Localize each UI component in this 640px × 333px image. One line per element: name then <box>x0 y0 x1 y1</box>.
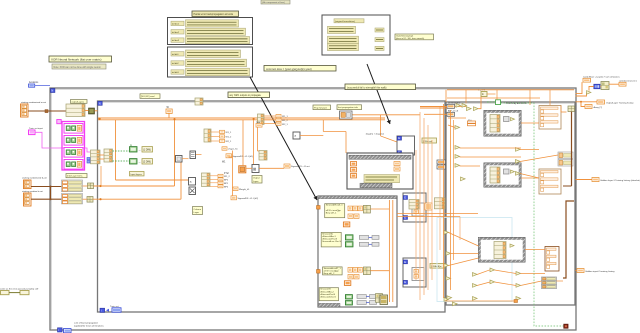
wire unbundle to S2 <box>85 110 98 112</box>
label common loss <box>264 66 336 72</box>
svg-text:(2 DIM): (2 DIM) <box>143 161 151 164</box>
wire w-set brown <box>28 110 66 113</box>
svg-text:all W.r inout[]ge: all W.r inout[]ge <box>324 269 340 272</box>
S4 green row 1 <box>345 235 379 240</box>
wire S2-S3 double <box>420 107 447 115</box>
svg-text:same as the error passed-out: same as the error passed-out (abs) self <box>0 288 39 291</box>
S4 orange row 1b <box>348 214 359 218</box>
unbundle outputLayers <box>66 104 85 117</box>
unbundle U1 <box>91 150 101 164</box>
unbundle U5 and minis <box>258 114 289 126</box>
svg-text:Partial error backpropagation: Partial error backpropagation all units <box>194 13 234 16</box>
wire N2 out <box>243 120 284 169</box>
unbundle U5b <box>259 151 267 161</box>
svg-text:outputLayers: outputLayers <box>72 100 86 103</box>
svg-text:any %d% outputs to propagate: any %d% outputs to propagate <box>230 94 262 97</box>
wire b-set brown 2 <box>31 198 62 200</box>
starting randomized b-set control <box>22 177 47 189</box>
case struct B <box>403 193 426 222</box>
svg-text:Weight_h1: Weight_h1 <box>239 188 250 191</box>
formula box 1 (dc/dw group) <box>168 18 253 45</box>
svg-text:W1_1: W1_1 <box>282 116 288 118</box>
S4 edge tunnels <box>317 206 321 274</box>
svg-text:E: E <box>404 215 406 219</box>
AxB node N1 <box>189 178 196 186</box>
a-b box pair <box>455 119 476 129</box>
svg-text:Output: Output <box>253 177 260 180</box>
svg-text:Find Array Elements: Find Array Elements <box>506 102 528 105</box>
for-loop S1 (iterations) border <box>50 88 576 330</box>
for-loop S2 (train set) border <box>98 101 446 312</box>
cond text top <box>583 75 621 78</box>
svg-text:(successful fail to strengthif: (successful fail to strengthif this walk… <box>347 86 387 89</box>
wire array ind <box>581 102 585 107</box>
sum avoids label <box>345 84 416 90</box>
tunnel cluster right top <box>434 198 445 209</box>
stack boxes bottom <box>542 277 557 289</box>
cluster group W dims <box>62 180 83 192</box>
svg-text:all W.r inout[]ge: all W.r inout[]ge <box>326 209 342 212</box>
S2 loop i terminal <box>100 308 109 312</box>
pink frame corner icon <box>57 120 61 124</box>
initial read label <box>140 94 160 99</box>
annotation arrow B <box>367 64 391 124</box>
train set indicator <box>110 305 121 312</box>
wire H1-C1 <box>521 122 539 124</box>
svg-text:XOR Neural Network (flat over: XOR Neural Network (flat over matrix) <box>51 58 102 62</box>
U3 output minis <box>210 174 230 188</box>
transpose icon <box>189 187 196 195</box>
cluster box C3 <box>545 247 559 272</box>
cluster box C2 <box>539 169 561 194</box>
sigmoid h1 row <box>226 154 253 158</box>
wire g1 east <box>83 118 176 187</box>
svg-text:W2_1: W2_1 <box>226 141 232 143</box>
array indicator <box>585 105 602 110</box>
svg-text:fast propagation info: fast propagation info <box>338 106 359 109</box>
sum of backprop label <box>74 321 105 327</box>
svg-text:dc/dw1: dc/dw1 <box>172 23 180 25</box>
wire icons <box>576 84 620 96</box>
svg-text:Column: Column <box>194 209 202 211</box>
svg-text:sum of back propagation: sum of back propagation <box>74 321 99 324</box>
starting random b-set control <box>22 190 43 206</box>
svg-text:(1 DIM): (1 DIM) <box>143 149 151 152</box>
svg-text:common loss = (yout-y)e(yout)(: common loss = (yout-y)e(yout)(1-yout) <box>266 67 312 71</box>
svg-text:W2_1: W2_1 <box>282 124 288 126</box>
svg-text:E: E <box>404 260 406 264</box>
wires S4 to H3 <box>397 214 478 241</box>
svg-text:→: → <box>138 148 141 152</box>
wire vertical x115 <box>116 120 191 180</box>
build icon g1 <box>88 183 94 189</box>
unbundle U4 and minis <box>204 129 232 143</box>
find array node <box>496 100 528 105</box>
wire mid verticals <box>229 151 234 197</box>
input layers label <box>130 172 145 176</box>
svg-text:InterLayer Dims: InterLayer Dims <box>67 175 83 178</box>
svg-text:SigmoidXX—f1 out: SigmoidXX—f1 out <box>291 165 310 168</box>
wire green dashed 2 <box>113 160 130 162</box>
svg-text:Gain/timestep/opt: Gain/timestep/opt <box>396 35 414 38</box>
svg-text:E: E <box>404 195 406 199</box>
svg-text:→: → <box>138 160 141 164</box>
wire U5 links <box>258 116 277 151</box>
wire train-set pink <box>35 132 91 152</box>
khaki triangle nodes <box>444 104 521 306</box>
matrix node M1 <box>176 156 189 163</box>
P h2 text <box>224 173 229 175</box>
diag text <box>366 133 385 136</box>
unbundle U6 top <box>195 98 203 105</box>
svg-text:[W1,W2] read: [W1,W2] read <box>141 95 155 98</box>
S4 build icon bottom <box>376 294 383 303</box>
svg-text:[1D/A×B]w: [1D/A×B]w <box>431 265 442 268</box>
sigmoid h2 row <box>231 196 258 200</box>
svg-text:OutputLayer Training history: OutputLayer Training history <box>606 101 634 104</box>
svg-text:controls (structure r): controls (structure r) <box>619 79 637 82</box>
tunnel on S4 bottom wire <box>445 300 518 303</box>
shape_h1 row <box>222 147 238 151</box>
svg-text:⊞: ⊞ <box>253 166 257 171</box>
brown wire right edge <box>563 112 572 186</box>
build icon right of unbundle <box>89 108 95 114</box>
S4 tunnel a <box>343 222 349 227</box>
wire main double horizontal <box>98 118 385 120</box>
wire tri to node <box>478 94 495 109</box>
for-loop S2 count terminal <box>98 101 102 105</box>
W1 text <box>222 161 226 163</box>
svg-text:SinusoidLen.Chn.S: SinusoidLen.Chn.S <box>322 241 341 243</box>
svg-text:Hidden layer-1 Training histor: Hidden layer-1 Training history (absolut… <box>601 179 640 182</box>
cyan struct outline <box>437 218 512 302</box>
S2 mid column tan boxes <box>409 200 432 211</box>
step1 label <box>228 92 270 98</box>
InterLayer Dims label <box>66 174 87 178</box>
label gain timestep <box>395 34 434 40</box>
for-loop S1 N terminal <box>51 89 55 93</box>
svg-text:Layer: Layer <box>253 180 259 183</box>
svg-text:starting random b-set: starting random b-set <box>22 190 43 193</box>
formula box 3 (original formulation) <box>322 15 390 55</box>
tunnel boxes on S2 edge <box>437 160 446 169</box>
wire vertical x323 <box>323 120 346 153</box>
iterations control <box>29 81 51 87</box>
blue minis left of U1 <box>87 158 90 164</box>
wire b-set brown 1 <box>31 186 62 188</box>
svg-text:starting randomized w-set: starting randomized w-set <box>21 101 46 104</box>
S4 orange rows 1 <box>348 205 389 213</box>
wire g2 east <box>83 155 202 201</box>
svg-text:Berp wE_1: Berp wE_1 <box>326 211 337 214</box>
svg-text:W1_2: W1_2 <box>226 137 232 139</box>
svg-text:W1_2: W1_2 <box>224 176 230 178</box>
green m row <box>130 144 153 152</box>
prop forward label <box>313 105 331 110</box>
S4 orange row 3b <box>348 275 359 279</box>
stack boxes right <box>558 152 573 166</box>
svg-text:W1_1: W1_1 <box>226 132 232 134</box>
hatched loop H3 <box>479 238 526 263</box>
svg-text:E: E <box>398 136 400 140</box>
svg-text:×: × <box>294 134 296 138</box>
svg-text:Array (?): Array (?) <box>594 106 603 109</box>
wire to find-array <box>455 106 467 108</box>
S4 orange rows 3 <box>348 267 389 275</box>
svg-text:(update)/for mean all iterat: (update)/for mean all iterations <box>74 325 105 328</box>
svg-text:Cond.Wsat: +l=spin(-? sum all: Cond.Wsat: +l=spin(-? sum all watces <box>583 75 621 78</box>
same-as-error controls <box>1 291 30 295</box>
S2 bottom khaki cluster <box>380 295 388 305</box>
cluster box C1 <box>539 106 561 130</box>
S4 tunnel b <box>344 281 350 286</box>
svg-text:Prop forward: Prop forward <box>314 106 327 109</box>
tunnel pair below fast prop <box>340 111 353 119</box>
svg-text:Input layers: Input layers <box>131 173 143 176</box>
AxB node N2 <box>252 165 259 173</box>
W terminal <box>166 106 172 118</box>
wire x380 area <box>352 115 420 142</box>
hatched loop H1 <box>484 111 521 137</box>
svg-text:Berp wE_2: Berp wE_2 <box>324 272 335 275</box>
S1 loop i terminal <box>58 328 72 333</box>
case structure S3 border <box>446 102 575 305</box>
svg-text:shape_h1: shape_h1 <box>228 149 238 151</box>
wire vertical x257 <box>257 120 259 151</box>
svg-text:dc/db1: dc/db1 <box>172 54 179 56</box>
S4 yellow label Y1 <box>325 204 345 218</box>
unbundle U2 <box>104 149 113 162</box>
starting randomized w-set control <box>21 101 47 117</box>
matrix node M2 <box>190 151 196 159</box>
svg-text:diag(m) × diagonal: diag(m) × diagonal <box>366 133 385 136</box>
svg-text:Layer: Layer <box>194 211 200 214</box>
S4 green row 3 <box>345 295 376 299</box>
svg-text:SinusoidW.outl_1: SinusoidW.outl_1 <box>326 204 344 207</box>
same-as-error label <box>0 288 39 291</box>
svg-text:Hidden input-2 training histor: Hidden input-2 training history <box>586 270 616 273</box>
hidden1 hist indicator <box>592 178 640 183</box>
svg-text:dc/dw2: dc/dw2 <box>172 32 180 34</box>
wire vertical x253 <box>253 118 255 165</box>
case struct A <box>397 136 415 155</box>
wire outputlayer hist <box>576 101 598 103</box>
svg-text:×: × <box>190 180 192 184</box>
svg-text:(4th component of loss): (4th component of loss) <box>262 1 285 4</box>
khaki label 2D conv <box>422 138 437 143</box>
tri pair top <box>467 107 479 111</box>
label XOR Neural Network title <box>49 56 112 62</box>
cond indicator 2 <box>619 82 626 86</box>
all iterate tunnel 1 <box>447 102 461 109</box>
train set input control <box>29 127 44 135</box>
svg-text:N: N <box>99 101 101 105</box>
S4 green row 2 <box>345 242 379 247</box>
svg-text:E: E <box>404 280 406 284</box>
label note single neuron <box>52 64 106 69</box>
weight_h1 row <box>233 187 250 191</box>
S4 yellow label Y4 <box>319 288 338 301</box>
build icon g2 <box>87 197 93 203</box>
cond indicator <box>583 78 591 82</box>
svg-text:(original formulation): (original formulation) <box>335 20 355 23</box>
svg-text:dSinusoidTru.B: dSinusoidTru.B <box>322 238 337 241</box>
inner loop W2 (output layer) <box>347 153 413 189</box>
outputlayer hist indicator <box>597 100 634 104</box>
svg-text:N: N <box>51 89 53 93</box>
svg-text:P h2: P h2 <box>224 173 229 175</box>
AxB Matrix label <box>252 176 262 184</box>
khaki label near B2 <box>430 264 445 269</box>
fast prop label <box>337 105 362 110</box>
S4 yellow label Y2 <box>321 232 341 247</box>
svg-text:W1_2: W1_2 <box>282 120 288 122</box>
train-set pink frame with element rows <box>62 122 85 171</box>
khaki big icon <box>601 82 609 90</box>
S3 orange wire mesh <box>444 90 575 298</box>
hatched loop H2 <box>484 163 521 187</box>
svg-text:Note: XOR can not be done with: Note: XOR can not be done with single ne… <box>54 66 102 69</box>
S4 yellow label Y3 <box>323 267 343 275</box>
controls text <box>619 79 637 82</box>
hidden2 hist indicator <box>577 269 615 274</box>
Told row <box>256 122 262 127</box>
terminal dot bottom right <box>564 324 568 328</box>
S4 green row 4 <box>345 301 376 305</box>
svg-text:(docs in 8.1..100, learn smoot: (docs in 8.1..100, learn smooth) <box>396 37 424 40</box>
svg-text:dc/db3: dc/db3 <box>172 72 179 74</box>
wire cond <box>576 82 583 94</box>
blue array icon <box>594 84 600 89</box>
Column Layer label <box>193 207 203 215</box>
label partial error backpropagation <box>192 11 239 17</box>
wire hidden1 <box>576 179 593 181</box>
all iterate tunnel 2 <box>447 110 459 117</box>
case structure S4 border <box>318 196 397 307</box>
sigmoid out row <box>284 164 310 168</box>
svg-text:dSinusoidTru.B: dSinusoidTru.B <box>320 293 335 296</box>
green dashed long wire <box>501 103 565 326</box>
edge tunnel pair <box>568 106 575 112</box>
tri node right <box>587 91 591 95</box>
outputLayers label <box>71 100 88 104</box>
unbundle U3 <box>202 173 211 187</box>
orange tunnel 5x5 <box>239 166 246 173</box>
label (4th component of loss) <box>261 0 290 4</box>
svg-text:SigmoidXX—f1.f (h2): SigmoidXX—f1.f (h2) <box>238 198 259 200</box>
wire green dashed 1 <box>113 150 130 152</box>
S2 column wires <box>416 107 440 300</box>
cluster group b dims <box>62 194 83 204</box>
svg-text:Sinusoid A: Sinusoid A <box>322 232 333 235</box>
green m row 2 <box>130 159 153 165</box>
wire hidden2 <box>576 270 578 272</box>
wire b-set vertical join <box>50 186 52 201</box>
ln p1^2 node <box>478 89 487 97</box>
annotation arrow A <box>250 77 317 200</box>
S4 vertical wires <box>389 200 392 302</box>
formula box 2 (dc/db group) <box>168 47 253 77</box>
svg-text:dc/dw3: dc/dw3 <box>172 40 180 42</box>
x node N3 <box>293 132 323 139</box>
svg-text:dSinusoidCho.S: dSinusoidCho.S <box>320 296 336 298</box>
svg-text:starting randomized b-set: starting randomized b-set <box>22 177 47 180</box>
svg-text:dc/db2: dc/db2 <box>172 63 179 65</box>
wire U1-U2 <box>100 155 104 159</box>
case struct B2 <box>403 258 426 287</box>
